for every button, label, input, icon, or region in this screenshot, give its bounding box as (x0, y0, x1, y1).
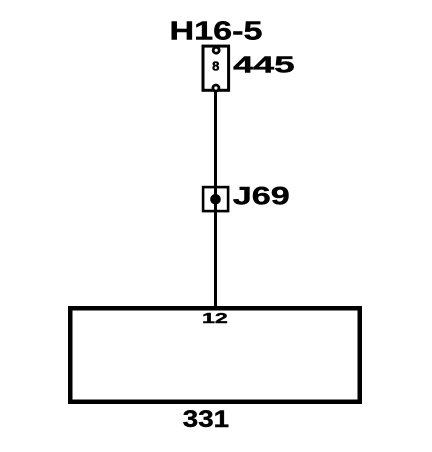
svg-text:445: 445 (233, 52, 295, 78)
svg-text:J69: J69 (233, 183, 290, 210)
wire from J69 to component 331 (214, 212, 217, 307)
connector H16-5 body (203, 46, 229, 90)
connector pin circle top (213, 47, 219, 53)
J69 junction dot (210, 194, 221, 205)
component 331 box (70, 308, 360, 402)
joint connector J69 box (203, 187, 228, 211)
connector pin circle bottom (213, 85, 219, 91)
svg-text:8: 8 (212, 59, 219, 74)
wire from H16-5 pin 8 to J69 (214, 91, 217, 187)
svg-text:331: 331 (183, 406, 229, 433)
svg-text:12: 12 (202, 311, 228, 327)
svg-text:H16-5: H16-5 (170, 18, 263, 46)
wire through J69 (214, 187, 217, 212)
